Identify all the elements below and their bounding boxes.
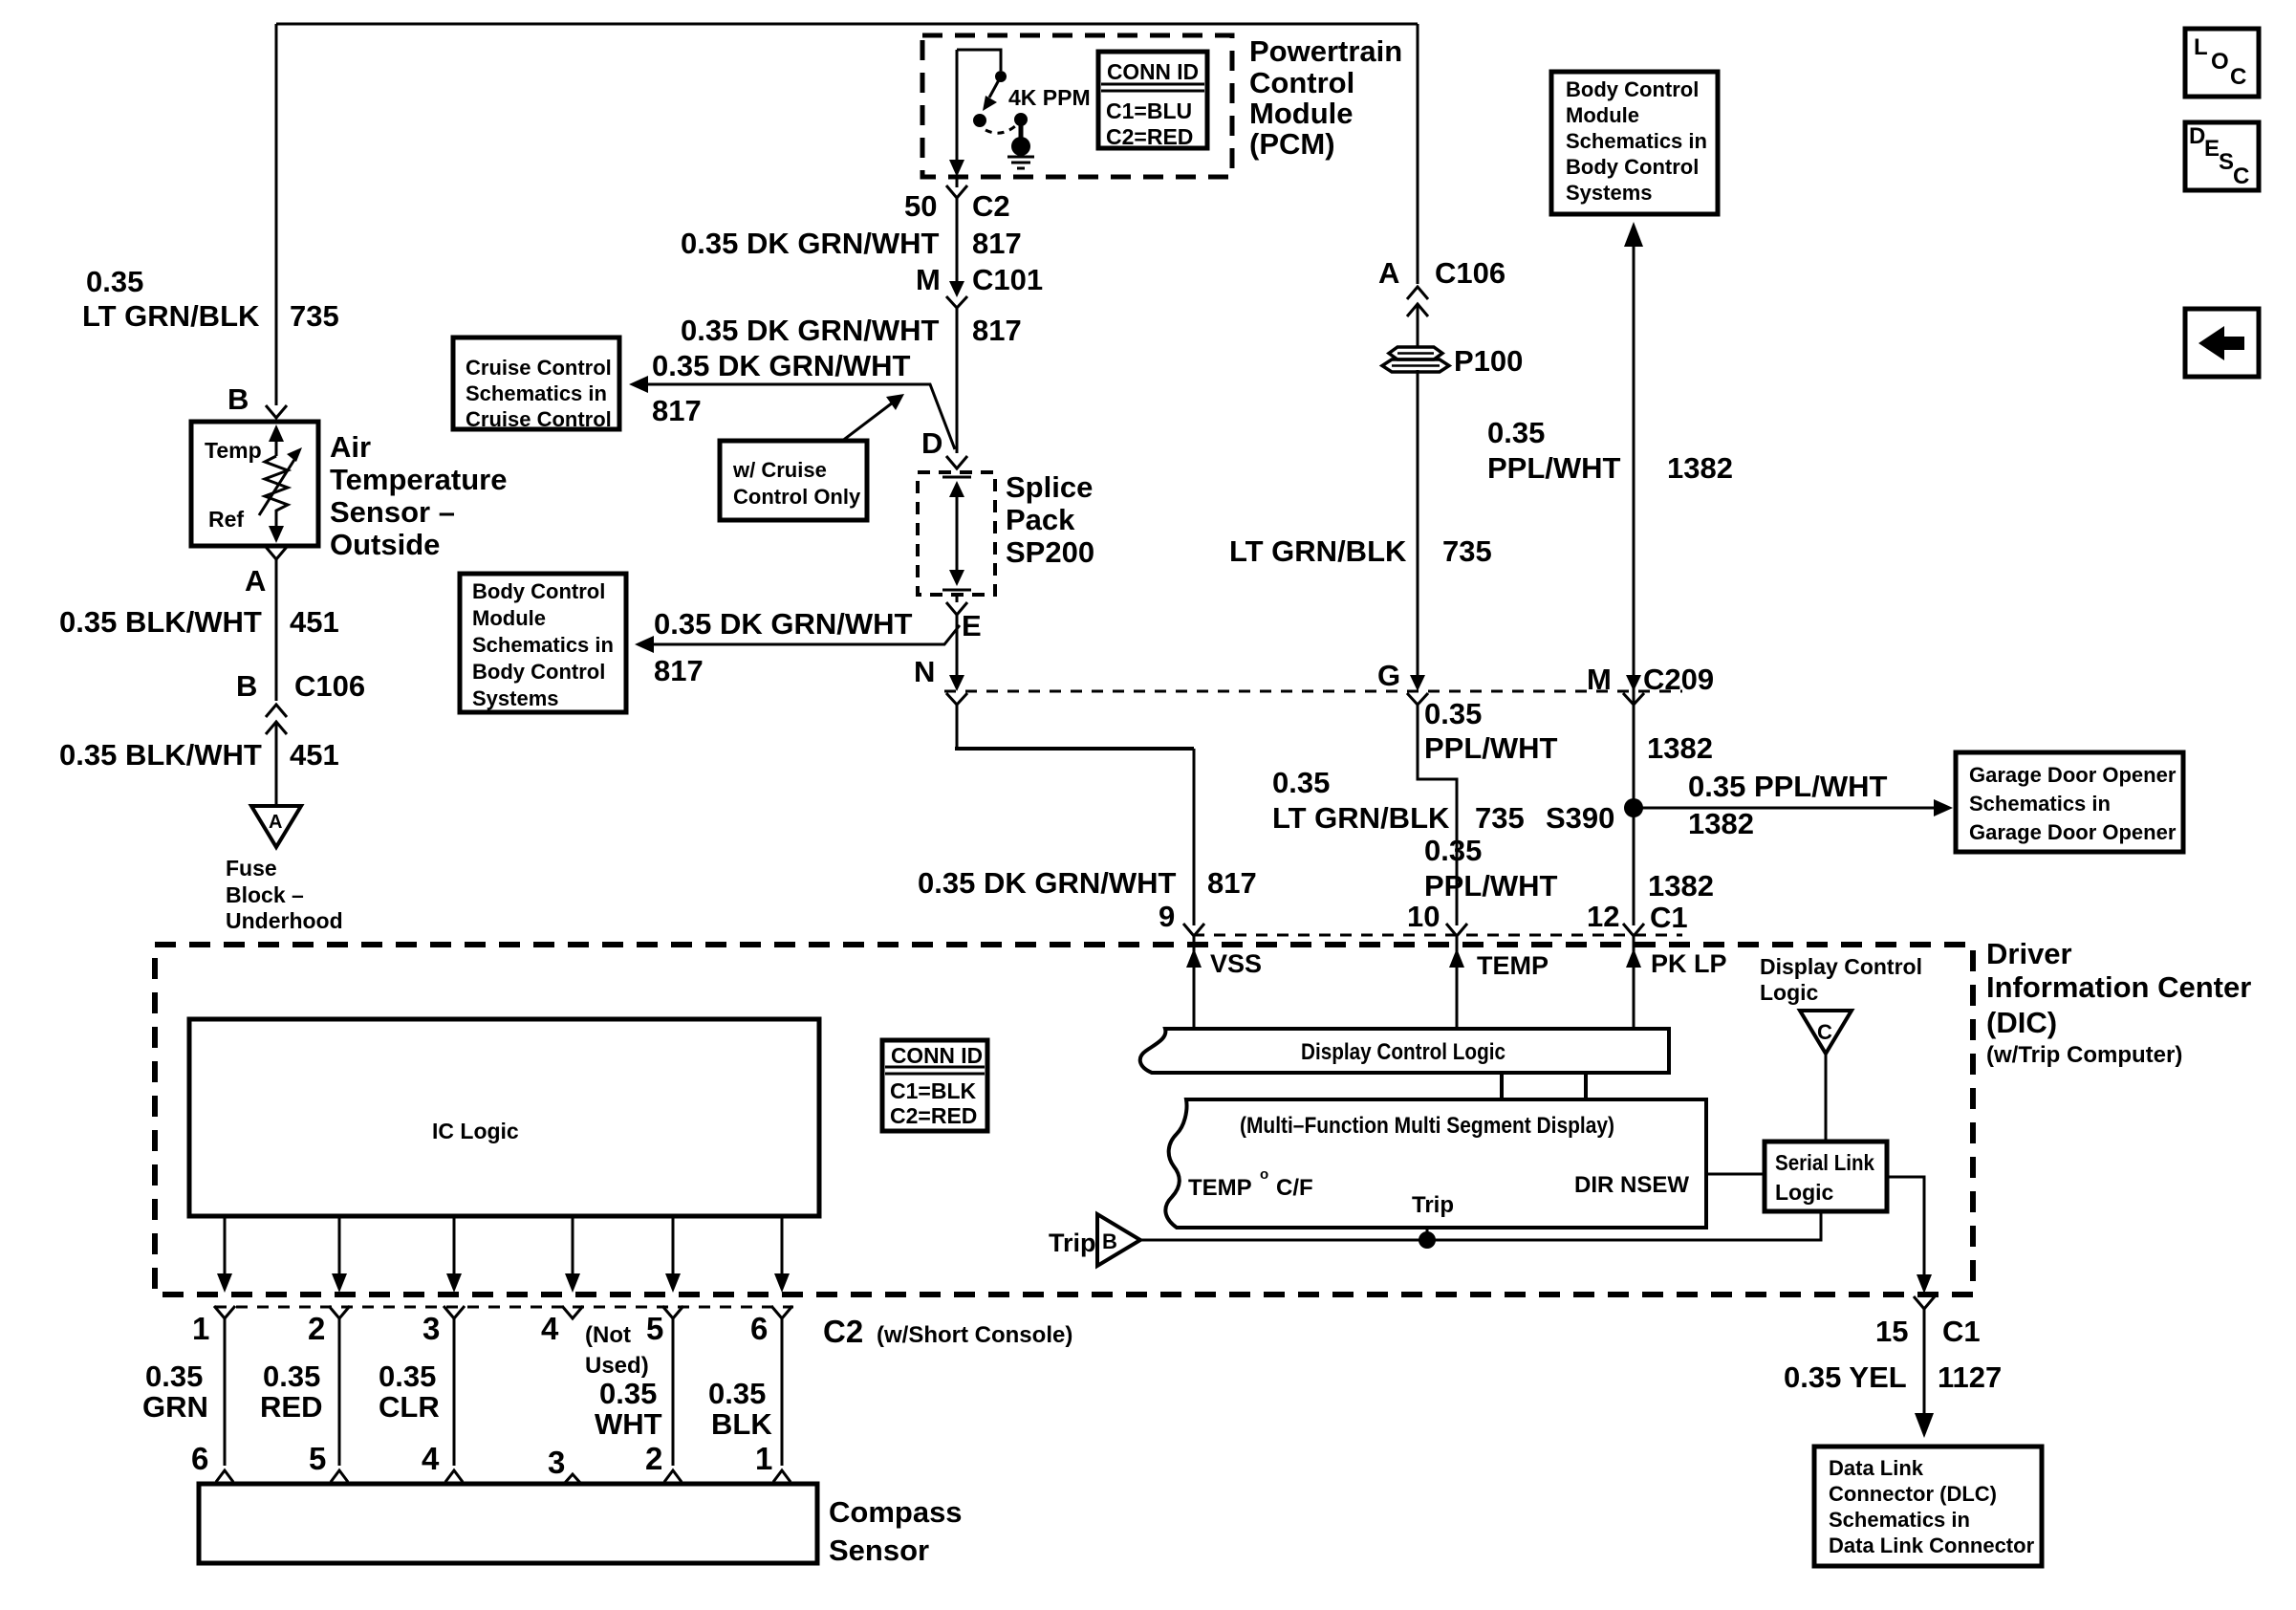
connector chevron at sensor pin A: [266, 547, 287, 559]
svg-text:L: L: [2194, 34, 2208, 60]
data link connector reference box: [1814, 1447, 2042, 1566]
connector: C106 double chevron: [266, 705, 287, 717]
svg-text:10: 10: [1407, 900, 1440, 933]
svg-text:WHT: WHT: [595, 1407, 662, 1441]
svg-text:0.35 PPL/WHT: 0.35 PPL/WHT: [1688, 770, 1887, 803]
svg-text:0.35: 0.35: [599, 1377, 657, 1410]
compass sensor box: [199, 1484, 817, 1563]
svg-text:Connector (DLC): Connector (DLC): [1829, 1482, 1997, 1506]
wire: triangle C to serial link logic: [1825, 1054, 1828, 1142]
switch lever with arrow: [989, 76, 1001, 98]
svg-text:1127: 1127: [1938, 1360, 2002, 1394]
wire: TEMP into display control logic: [1456, 936, 1459, 1029]
wire: S390 to garage door opener: [1634, 807, 1940, 810]
svg-text:Powertrain: Powertrain: [1249, 34, 1402, 68]
connector C2 pin 1 chevron: [214, 1306, 235, 1318]
svg-text:C: C: [2233, 163, 2249, 189]
connector row C2 thin dashed line: [215, 1306, 793, 1309]
PCM internal ground: [1019, 122, 1024, 139]
DESC navigation box: [2185, 122, 2259, 190]
svg-text:3: 3: [548, 1445, 565, 1480]
body control module reference box (top right): [1551, 72, 1718, 214]
svg-text:4: 4: [541, 1311, 559, 1346]
svg-text:0.35: 0.35: [86, 265, 143, 298]
IC logic box: [189, 1019, 819, 1216]
svg-text:0.35: 0.35: [263, 1360, 320, 1393]
wire: serial link logic right to pin 15: [1887, 1177, 1924, 1281]
svg-text:Display Control Logic: Display Control Logic: [1301, 1039, 1505, 1065]
svg-text:Data Link: Data Link: [1829, 1456, 1924, 1480]
svg-text:3: 3: [422, 1311, 440, 1346]
svg-text:D: D: [2189, 123, 2205, 149]
svg-text:Garage Door Opener: Garage Door Opener: [1969, 763, 2177, 787]
svg-text:817: 817: [972, 227, 1022, 260]
pin 9 chevron: [1183, 924, 1204, 936]
wire: IC logic pin 6: [781, 1216, 784, 1277]
svg-text:C1: C1: [1942, 1315, 1981, 1348]
svg-text:B: B: [1102, 1229, 1117, 1253]
wire: 451 from sensor pin A down: [275, 559, 278, 701]
svg-text:Schematics in: Schematics in: [472, 633, 614, 657]
wire: E to N vertical: [956, 595, 959, 602]
svg-text:CONN ID: CONN ID: [891, 1043, 983, 1068]
svg-text:Schematics in: Schematics in: [1566, 129, 1707, 153]
svg-text:M: M: [1587, 663, 1612, 696]
svg-text:C1: C1: [1650, 901, 1688, 934]
svg-text:C2: C2: [972, 189, 1010, 223]
svg-text:4K PPM: 4K PPM: [1008, 85, 1091, 110]
svg-text:1382: 1382: [1667, 451, 1733, 485]
svg-text:735: 735: [1442, 534, 1492, 568]
svg-text:S: S: [2219, 149, 2234, 175]
svg-text:Driver: Driver: [1986, 937, 2072, 970]
svg-text:O: O: [2211, 49, 2229, 75]
pin 12 chevron: [1623, 924, 1644, 936]
wire: display to serial link logic: [1706, 1173, 1765, 1176]
connector row C209 thin dashed line: [944, 690, 1682, 693]
cruise control reference box: [453, 337, 619, 429]
svg-text:Ref: Ref: [208, 507, 244, 532]
svg-text:N: N: [914, 655, 935, 688]
svg-text:Module: Module: [472, 606, 546, 630]
svg-text:CLR: CLR: [379, 1390, 440, 1424]
wire: IC logic pin 5: [672, 1216, 675, 1277]
wire: compass 2: [672, 1318, 675, 1466]
wire: PK LP into display control logic: [1633, 936, 1635, 1029]
svg-text:0.35: 0.35: [379, 1360, 436, 1393]
wire: compass 5: [338, 1318, 341, 1466]
svg-text:2: 2: [308, 1311, 325, 1346]
svg-text:Systems: Systems: [1566, 181, 1653, 205]
reference triangle C: [1800, 1011, 1852, 1054]
svg-text:0.35: 0.35: [708, 1377, 766, 1410]
svg-text:C106: C106: [294, 669, 365, 703]
junction dot on trip line: [1419, 1231, 1436, 1249]
body control module reference box (left): [460, 574, 626, 712]
svg-text:9: 9: [1159, 900, 1175, 933]
grommet P100: [1389, 347, 1442, 359]
svg-text:0.35: 0.35: [1424, 697, 1482, 730]
pin 10 chevron: [1446, 924, 1467, 936]
wire: IC logic pin 4: [572, 1216, 574, 1277]
svg-text:Trip: Trip: [1412, 1192, 1454, 1218]
svg-text:817: 817: [652, 394, 702, 427]
wire: 735 right vertical from top wire to C106: [1417, 24, 1419, 284]
connector row C1 thin dashed line: [1193, 934, 1682, 937]
svg-text:2: 2: [645, 1441, 662, 1476]
svg-text:Systems: Systems: [472, 686, 559, 710]
connector C2 pin 2 chevron: [329, 1306, 350, 1318]
svg-text:1382: 1382: [1688, 807, 1754, 840]
svg-text:0.35 DK GRN/WHT: 0.35 DK GRN/WHT: [681, 314, 939, 347]
PCM CONN ID table: [1098, 52, 1207, 148]
svg-text:1382: 1382: [1647, 731, 1713, 765]
svg-text:C2: C2: [823, 1314, 863, 1349]
svg-text:Body Control: Body Control: [472, 579, 605, 603]
svg-text:Control Only: Control Only: [733, 485, 861, 509]
svg-text:0.35 DK GRN/WHT: 0.35 DK GRN/WHT: [681, 227, 939, 260]
connector C2 pin 6 chevron: [771, 1306, 792, 1318]
connector C2 pin 4 chevron (not used): [562, 1306, 583, 1318]
svg-text:0.35: 0.35: [145, 1360, 203, 1393]
wire: compass 4: [453, 1318, 456, 1466]
svg-text:Temperature: Temperature: [330, 463, 508, 496]
svg-text:0.35: 0.35: [1424, 834, 1482, 867]
svg-text:0.35 DK GRN/WHT: 0.35 DK GRN/WHT: [654, 607, 912, 641]
svg-text:Control: Control: [1249, 66, 1354, 99]
svg-text:Garage Door Opener: Garage Door Opener: [1969, 820, 2177, 844]
svg-text:C209: C209: [1643, 663, 1714, 696]
fuse block reference triangle A: [251, 806, 301, 847]
wire: 451 below C106 to fuse block triangle: [275, 722, 278, 804]
wire: IC logic pin 3: [453, 1216, 456, 1277]
svg-text:15: 15: [1875, 1315, 1908, 1348]
svg-text:LT GRN/BLK: LT GRN/BLK: [1229, 534, 1407, 568]
svg-text:o: o: [1260, 1166, 1268, 1183]
svg-text:S390: S390: [1546, 801, 1614, 835]
svg-text:BLK: BLK: [711, 1407, 772, 1441]
svg-text:0.35 BLK/WHT: 0.35 BLK/WHT: [59, 738, 262, 772]
wire: 1127 down to DLC: [1923, 1309, 1926, 1422]
splice pack internal bus ticks and arrows: [942, 476, 971, 479]
svg-text:Module: Module: [1249, 97, 1354, 130]
svg-text:D: D: [921, 426, 942, 460]
splice pack SP200 dashed box: [918, 472, 995, 595]
svg-text:Sensor –: Sensor –: [330, 495, 455, 529]
svg-text:(PCM): (PCM): [1249, 127, 1335, 161]
connectors between display control logic and display: [1500, 1073, 1504, 1099]
wire: 817 from PCM pin 50: [956, 177, 959, 187]
wire: 817 below N jogging right to DIC pin 9: [956, 705, 959, 749]
wire: cruise control branch 817: [637, 384, 955, 449]
wire: VSS into display control logic: [1193, 936, 1196, 1029]
svg-text:6: 6: [191, 1441, 208, 1476]
svg-text:0.35: 0.35: [1487, 416, 1545, 449]
wire: body control module branch 817: [642, 625, 960, 644]
svg-text:Pack: Pack: [1006, 503, 1075, 536]
svg-text:Logic: Logic: [1760, 980, 1819, 1005]
svg-text:C2=RED: C2=RED: [1106, 124, 1193, 149]
svg-text:Outside: Outside: [330, 528, 440, 561]
svg-text:PPL/WHT: PPL/WHT: [1424, 869, 1558, 903]
svg-text:Sensor: Sensor: [829, 1534, 929, 1567]
svg-text:Air: Air: [330, 430, 371, 464]
svg-text:C106: C106: [1435, 256, 1505, 290]
svg-text:Underhood: Underhood: [226, 908, 343, 933]
wire: left vertical 735 down to Air Temperature Sensor: [275, 24, 278, 405]
svg-text:E: E: [2204, 136, 2220, 162]
wire: 1382 vertical from BCM arrow down to pin 12: [1633, 239, 1635, 925]
svg-text:C/F: C/F: [1276, 1175, 1313, 1201]
wire: IC logic pin 1: [224, 1216, 227, 1277]
svg-text:Compass: Compass: [829, 1495, 963, 1529]
svg-text:735: 735: [1475, 801, 1525, 835]
svg-text:A: A: [245, 564, 266, 598]
svg-text:Serial Link: Serial Link: [1775, 1150, 1874, 1175]
PCM dashed box: [922, 35, 1232, 177]
svg-text:Logic: Logic: [1775, 1180, 1834, 1205]
svg-text:451: 451: [290, 738, 339, 772]
svg-text:(w/Trip Computer): (w/Trip Computer): [1986, 1042, 2182, 1068]
serial link logic box: [1765, 1142, 1887, 1211]
PCM internal: 4K PPM speed signal switch: [957, 50, 1001, 71]
PCM internal output wire with arrow to box edge: [956, 50, 959, 163]
svg-text:50: 50: [904, 189, 937, 223]
connector C2 pin 5 chevron: [662, 1306, 683, 1318]
svg-text:Used): Used): [585, 1353, 649, 1379]
svg-text:C1=BLK: C1=BLK: [890, 1078, 976, 1103]
pin 15 C1 connector below DIC: [1914, 1296, 1935, 1309]
svg-text:Data Link Connector: Data Link Connector: [1829, 1534, 2035, 1557]
svg-text:C101: C101: [972, 263, 1043, 296]
svg-text:451: 451: [290, 605, 339, 639]
wire: 817 between C2 and C101: [956, 198, 959, 281]
svg-text:GRN: GRN: [142, 1390, 208, 1424]
svg-text:6: 6: [750, 1311, 768, 1346]
wire: display Trip stem: [1426, 1228, 1429, 1240]
svg-text:Cruise Control: Cruise Control: [466, 356, 612, 380]
svg-text:A: A: [1378, 256, 1399, 290]
svg-text:C1=BLU: C1=BLU: [1106, 98, 1192, 123]
svg-text:B: B: [236, 669, 257, 703]
svg-text:Display Control: Display Control: [1760, 954, 1922, 979]
svg-text:G: G: [1377, 659, 1400, 692]
wire: 817 from C101 down to splice pack pin D: [956, 308, 959, 453]
wire: compass 6: [224, 1318, 227, 1466]
svg-text:735: 735: [290, 299, 339, 333]
switch dashed travel arc: [986, 126, 1015, 133]
svg-text:PPL/WHT: PPL/WHT: [1487, 451, 1621, 485]
svg-text:SP200: SP200: [1006, 535, 1094, 569]
connector C2 pin 3 chevron: [444, 1306, 465, 1318]
svg-text:(w/Short Console): (w/Short Console): [877, 1322, 1072, 1348]
sensor internal: wire with arrows and variable resistor: [275, 435, 278, 456]
svg-text:C: C: [1817, 1020, 1832, 1044]
DIC dashed boundary box: [155, 945, 1973, 1295]
node E: splice pack pin E: [946, 602, 967, 615]
svg-text:0.35 DK GRN/WHT: 0.35 DK GRN/WHT: [918, 866, 1176, 900]
back arrow navigation box: [2185, 309, 2259, 377]
svg-text:Schematics in: Schematics in: [1969, 792, 2111, 816]
svg-text:Temp: Temp: [205, 438, 262, 463]
wire: serial link logic bottom to trip line: [1140, 1211, 1821, 1240]
svg-text:LT GRN/BLK: LT GRN/BLK: [82, 299, 260, 333]
callout arrow to cruise wire: [841, 402, 893, 442]
connector: pin 50 C2 chevron: [946, 185, 967, 198]
svg-text:PK LP: PK LP: [1651, 949, 1727, 978]
svg-text:0.35 BLK/WHT: 0.35 BLK/WHT: [59, 605, 262, 639]
svg-text:0.35 YEL: 0.35 YEL: [1784, 1360, 1907, 1394]
svg-text:0.35: 0.35: [1272, 766, 1330, 799]
svg-text:Module: Module: [1566, 103, 1639, 127]
svg-text:(Multi–Function Multi Segment: (Multi–Function Multi Segment Display): [1240, 1113, 1614, 1139]
w/ Cruise Control Only callout box: [720, 441, 867, 520]
svg-text:IC Logic: IC Logic: [432, 1119, 519, 1143]
wire: C106 to P100: [1417, 304, 1419, 347]
svg-text:817: 817: [654, 654, 704, 687]
svg-text:Information Center: Information Center: [1986, 970, 2251, 1004]
svg-text:1: 1: [755, 1441, 772, 1476]
svg-text:Body Control: Body Control: [472, 660, 605, 684]
multi-function display box (curly left edge): [1165, 1099, 1706, 1228]
svg-text:Body Control: Body Control: [1566, 77, 1699, 101]
svg-text:Schematics in: Schematics in: [1829, 1508, 1970, 1532]
connector chevron at sensor pin B: [266, 405, 287, 418]
svg-text:817: 817: [1207, 866, 1257, 900]
svg-text:4: 4: [422, 1441, 440, 1476]
svg-text:1382: 1382: [1648, 869, 1714, 903]
svg-text:(Not: (Not: [585, 1322, 631, 1348]
display control logic box (curly left edge): [1140, 1029, 1669, 1073]
garage door opener reference box: [1956, 752, 2183, 852]
svg-text:RED: RED: [260, 1390, 322, 1424]
svg-text:Schematics in: Schematics in: [466, 381, 607, 405]
air temperature sensor box: [191, 422, 318, 546]
svg-text:P100: P100: [1454, 344, 1523, 378]
wire: compass 1: [781, 1318, 784, 1466]
svg-text:LT GRN/BLK: LT GRN/BLK: [1272, 801, 1450, 835]
svg-text:(DIC): (DIC): [1986, 1006, 2057, 1039]
svg-text:Block –: Block –: [226, 882, 304, 907]
svg-text:Cruise Control: Cruise Control: [466, 407, 612, 431]
svg-text:A: A: [269, 812, 282, 833]
svg-text:E: E: [962, 609, 982, 642]
svg-text:Fuse: Fuse: [226, 856, 277, 881]
svg-text:M: M: [916, 263, 941, 296]
svg-text:12: 12: [1587, 900, 1619, 933]
svg-text:817: 817: [972, 314, 1022, 347]
wire: IC logic pin 2: [338, 1216, 341, 1277]
svg-text:PPL/WHT: PPL/WHT: [1424, 731, 1558, 765]
LOC navigation box: [2185, 29, 2259, 97]
wire: P100 down to G: [1417, 370, 1419, 681]
svg-text:5: 5: [646, 1311, 663, 1346]
wire: G down jog to DIC pin 10: [1418, 705, 1457, 925]
svg-text:VSS: VSS: [1210, 949, 1262, 978]
DIC CONN ID table: [882, 1040, 987, 1131]
svg-text:C2=RED: C2=RED: [890, 1103, 977, 1128]
svg-text:Body Control: Body Control: [1566, 155, 1699, 179]
svg-text:DIR NSEW: DIR NSEW: [1574, 1172, 1689, 1198]
svg-text:0.35 DK GRN/WHT: 0.35 DK GRN/WHT: [652, 349, 910, 382]
svg-text:TEMP: TEMP: [1477, 951, 1549, 980]
svg-text:C: C: [2230, 64, 2246, 90]
svg-text:TEMP: TEMP: [1188, 1175, 1252, 1201]
svg-text:CONN ID: CONN ID: [1107, 59, 1199, 84]
arrow up into body control module box: [1624, 222, 1643, 247]
svg-text:B: B: [227, 382, 249, 416]
svg-text:Splice: Splice: [1006, 470, 1093, 504]
svg-text:1: 1: [192, 1311, 209, 1346]
svg-text:Trip: Trip: [1049, 1229, 1096, 1257]
sensor variable-resistor diagonal arrow: [259, 455, 297, 515]
svg-text:5: 5: [309, 1441, 326, 1476]
wire: top horizontal 735 from air temp sensor to PCM right line: [276, 23, 1418, 26]
svg-text:w/ Cruise: w/ Cruise: [732, 458, 827, 482]
